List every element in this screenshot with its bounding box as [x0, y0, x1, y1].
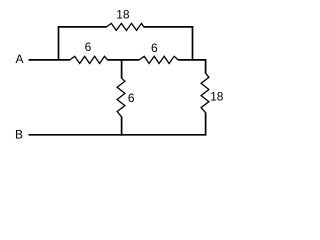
wire right riser (top loop) — [192, 26, 194, 61]
wire right branch lower — [205, 113, 207, 136]
resistor 6 (vertical middle) — [117, 78, 125, 117]
wire right segment to corner — [178, 60, 206, 74]
resistor 6 (right horizontal) — [139, 56, 178, 63]
wire middle branch upper — [121, 59, 123, 78]
wire top-right segment — [144, 26, 194, 28]
resistor 18 (vertical right) — [201, 73, 209, 113]
svg-text:18: 18 — [210, 90, 224, 104]
wire top-left segment — [58, 26, 107, 28]
wire bottom — [29, 134, 207, 136]
resistor 18 (top) — [107, 23, 144, 30]
svg-text:A: A — [15, 52, 23, 66]
svg-text:B: B — [15, 128, 23, 142]
wire A lead — [29, 59, 71, 61]
wire left riser (top loop) — [58, 26, 60, 61]
svg-text:6: 6 — [151, 41, 158, 55]
resistor 6 (left horizontal) — [70, 56, 108, 63]
wire middle branch lower — [121, 117, 123, 136]
svg-text:6: 6 — [128, 91, 135, 105]
svg-text:18: 18 — [116, 8, 130, 22]
wire between resistors — [107, 59, 139, 61]
svg-text:6: 6 — [85, 40, 92, 54]
